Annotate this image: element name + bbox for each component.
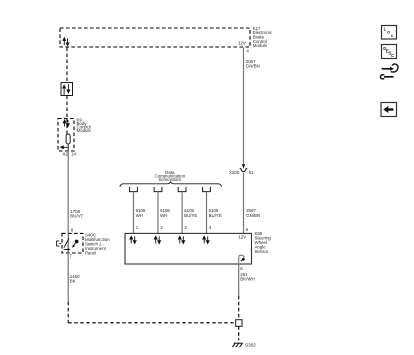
switch blade [64, 238, 69, 247]
dashed ground bus wire [68, 322, 235, 324]
label Data Communication Schematics [155, 170, 186, 182]
contact dot [75, 240, 79, 244]
K9 output arrow (left) [61, 144, 69, 151]
svg-text:Module: Module [77, 128, 92, 133]
svg-text:12V: 12V [238, 41, 246, 46]
svg-text:BU/YE: BU/YE [209, 213, 222, 218]
icon DESC box 2 [382, 45, 397, 59]
brace over data bus drops [120, 182, 221, 187]
wire 6105 BU/YE (drop 4) [206, 192, 208, 234]
svg-text:WH: WH [160, 213, 167, 218]
K85 internal sensor loop [239, 255, 245, 264]
ground G302 [232, 343, 242, 347]
dashed continuation to ground run [67, 302, 69, 323]
module K9 Body Control Module (dashed box) [58, 119, 74, 152]
label K9 [77, 117, 92, 133]
K85 internal arrows pin 2 [154, 236, 160, 243]
wire 1450 BK down from S40C [67, 253, 69, 302]
dashed stub to ground [238, 326, 240, 340]
svg-text:14: 14 [71, 152, 76, 157]
wire 251 BK/WH from K85 pin 6 [238, 264, 240, 296]
dashed wire from K17 down to inline connector (left) [66, 48, 68, 83]
wiper with arrowhead [73, 243, 75, 246]
dashed wire down to K9 [66, 96, 68, 119]
K9 internal element (capsule) [66, 134, 70, 144]
svg-text:X2: X2 [63, 152, 69, 157]
detent arrow [64, 248, 69, 250]
inline connector box with pass-through arrows [61, 83, 73, 96]
wire 2067 continues down to K85 pin 5 [243, 173, 245, 234]
wire 2067 GN/BN from K17 pin 4 down to X200 [243, 48, 245, 165]
module K17 Electronic Brake Control Module (dashed box) [60, 28, 250, 47]
wire 6105 BU/YE (drop 3) [181, 192, 183, 234]
icon back (boxed left arrow) [381, 103, 397, 117]
icon repair (arrow + wrench) [380, 64, 398, 79]
switch S40C Multifunction Switch (dashed box) [62, 233, 83, 253]
wire 1708 BU/VT from K9 to S40C [67, 151, 69, 234]
K85 internal arrows pin 1 [130, 236, 136, 243]
svg-text:GN/BN: GN/BN [246, 64, 260, 69]
svg-text:Panel: Panel [85, 251, 96, 256]
svg-text:BU/VT: BU/VT [70, 213, 83, 218]
svg-text:Sensor: Sensor [255, 249, 269, 254]
switch internals [64, 233, 79, 253]
mechanical linkage bracket [57, 241, 62, 246]
wire 6106 WH (drop 2) [157, 192, 159, 234]
svg-text:BK: BK [70, 278, 76, 283]
svg-text:o: o [387, 30, 390, 35]
drop connector cup 3 [178, 187, 186, 192]
K17 internal bidirectional arrows [63, 38, 69, 46]
module K85 Steering Wheel Angle Sensor (solid box) [125, 233, 252, 264]
svg-text:61: 61 [249, 170, 254, 175]
svg-text:BU/YE: BU/YE [184, 213, 197, 218]
icon DTC box 1 [382, 26, 397, 40]
svg-text:Schematics: Schematics [158, 177, 181, 182]
drop connector cup 4 [203, 187, 211, 192]
label K85 [255, 231, 272, 254]
inline connector X200 terminal 61 (arrow into cup) [240, 164, 247, 171]
K85 internal arrows pin 3 [178, 236, 184, 243]
label S40C [85, 233, 110, 256]
svg-text:X200: X200 [229, 170, 240, 175]
K9 internal bidirectional arrows [63, 120, 69, 127]
svg-text:WH: WH [136, 213, 143, 218]
junction box [236, 320, 242, 327]
wire 6106 WH (drop 1) [133, 192, 135, 234]
svg-text:L: L [384, 27, 387, 32]
wire through switch [67, 233, 69, 253]
svg-text:12V: 12V [238, 235, 246, 240]
svg-text:GN/BN: GN/BN [246, 213, 260, 218]
K9 internal dashed wire [66, 119, 68, 135]
label K17 [253, 26, 273, 48]
svg-text:Module: Module [253, 43, 268, 48]
drop connector cup 1 [130, 187, 138, 192]
dashed continuation to ground junction [238, 296, 240, 320]
drop connector cup 2 [154, 187, 162, 192]
svg-text:BK/WH: BK/WH [240, 276, 254, 281]
svg-text:G302: G302 [245, 342, 256, 347]
K85 internal arrows pin 4 [203, 236, 209, 243]
